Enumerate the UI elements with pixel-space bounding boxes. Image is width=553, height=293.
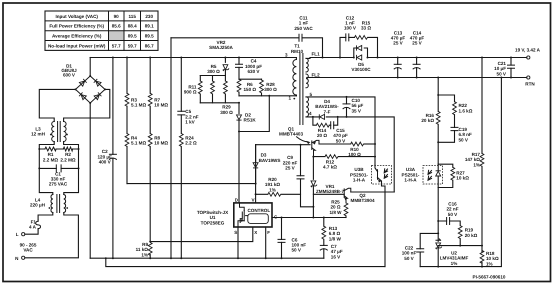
resistor R22 1.6k	[437, 94, 473, 115]
Q1 base wire	[256, 144, 310, 146]
svg-text:D: D	[235, 198, 238, 203]
svg-text:RM10: RM10	[291, 49, 304, 54]
capacitor C22 100nF	[402, 233, 438, 266]
svg-text:4: 4	[309, 111, 312, 116]
transistor Q2 MMBT3904	[313, 188, 394, 203]
resistor R28 300	[260, 79, 278, 96]
U2 ref wire	[438, 245, 482, 247]
svg-text:V30100C: V30100C	[351, 67, 371, 72]
zener VR1 ZMM5248B-7	[311, 157, 345, 219]
resistor R25 20 1/8W	[330, 199, 348, 217]
svg-text:600 V: 600 V	[63, 73, 76, 78]
snubber R15 33	[355, 21, 379, 59]
capacitor C21 10uF	[494, 57, 514, 79]
wire fuse to L4 left	[38, 213, 53, 221]
B+ rail	[90, 57, 296, 59]
fuse F1 4 A	[37, 220, 39, 230]
svg-text:50 V: 50 V	[336, 138, 346, 143]
svg-text:115: 115	[128, 14, 136, 19]
capacitor C10 56uF	[343, 96, 364, 118]
resistor R24 2.2	[179, 134, 197, 260]
svg-text:Average Efficiency (%): Average Efficiency (%)	[52, 34, 102, 39]
capacitor C13 470uF	[391, 30, 406, 78]
resistors R1 R2 2.2M	[38, 147, 79, 169]
svg-text:50 V: 50 V	[448, 212, 458, 217]
output rectifier D5 V30100C dual	[351, 45, 371, 72]
svg-text:630 V: 630 V	[247, 69, 260, 74]
svg-text:5: 5	[310, 92, 313, 97]
optocoupler U3A PS2501 LED side	[402, 164, 443, 187]
svg-text:300 Ω: 300 Ω	[220, 110, 233, 115]
wires L3 to bridge AC	[39, 89, 75, 121]
svg-text:900 Ω: 900 Ω	[184, 90, 197, 95]
svg-text:10 MΩ: 10 MΩ	[154, 141, 168, 146]
opto cathode down to U2	[437, 188, 439, 267]
svg-text:100 V: 100 V	[344, 26, 357, 31]
svg-text:4.7 kΩ: 4.7 kΩ	[323, 165, 337, 170]
svg-text:2.2 Ω: 2.2 Ω	[185, 141, 197, 146]
resistor R4 5.1M	[125, 134, 146, 184]
svg-text:TOP258EG: TOP258EG	[201, 220, 225, 225]
optocoupler U3B PS2501 transistor side	[350, 165, 391, 184]
svg-text:10 MΩ: 10 MΩ	[154, 103, 168, 108]
efficiency table	[45, 11, 158, 50]
resistor R17 147k	[465, 152, 484, 167]
capacitor C19 6.8nF	[437, 115, 472, 144]
svg-text:89.5: 89.5	[145, 34, 154, 39]
shunt regulator U2 LMV431AIMF	[436, 239, 469, 266]
svg-text:5.1 MΩ: 5.1 MΩ	[131, 141, 146, 146]
resistor R12 4.7k	[312, 155, 376, 170]
U3B emitter wire	[382, 184, 386, 267]
svg-text:57.7: 57.7	[112, 43, 121, 48]
svg-text:50 V: 50 V	[497, 71, 507, 76]
svg-text:10 kΩ: 10 kΩ	[456, 176, 469, 181]
capacitor C14 470uF	[410, 30, 425, 78]
capacitor C5 2.2nF	[178, 57, 199, 134]
capacitor C16 22nF	[438, 201, 460, 225]
T1 winding FL1	[306, 51, 320, 72]
svg-text:1: 1	[288, 95, 291, 100]
clamp top bar	[200, 75, 225, 77]
X pin wire	[150, 227, 253, 242]
svg-text:25 V: 25 V	[412, 40, 422, 45]
diode D3 BAV19WS	[253, 145, 280, 184]
svg-text:400 V: 400 V	[99, 160, 112, 165]
clamp bottom bar	[200, 102, 239, 104]
transistor Q1 MMBT4403	[279, 126, 351, 156]
svg-text:ZMM5248B-7: ZMM5248B-7	[316, 189, 345, 194]
svg-text:12 mH: 12 mH	[31, 131, 45, 136]
svg-text:Input Voltage (VAC): Input Voltage (VAC)	[55, 14, 98, 19]
svg-text:300 Ω: 300 Ω	[264, 87, 277, 92]
svg-text:RS1K: RS1K	[244, 118, 257, 123]
svg-text:88.4: 88.4	[128, 24, 137, 29]
svg-text:Full Power Efficiency (%): Full Power Efficiency (%)	[49, 24, 104, 29]
T1 bias winding pin5-pin4	[306, 92, 313, 117]
svg-text:SMAJ250A: SMAJ250A	[209, 45, 233, 50]
resistor R13 6.8	[322, 217, 342, 242]
svg-text:No-load Input Power (mW): No-load Input Power (mW)	[48, 43, 106, 48]
svg-text:X: X	[254, 230, 257, 235]
wire L to fuse	[25, 230, 38, 234]
svg-text:25 V: 25 V	[393, 40, 403, 45]
resistor R10 100	[348, 142, 376, 157]
resistor R29 300	[220, 76, 233, 115]
svg-text:20 kΩ: 20 kΩ	[465, 233, 478, 238]
snubber C15 470pF	[329, 116, 348, 143]
wire R4 to V-pin column	[127, 183, 256, 185]
wire bridge minus down	[89, 103, 91, 258]
svg-text:20 kΩ: 20 kΩ	[421, 118, 434, 123]
secondary ground rail	[420, 78, 501, 267]
svg-text:1%: 1%	[141, 252, 148, 257]
resistor R20 191k	[256, 177, 315, 208]
svg-text:4 A: 4 A	[29, 225, 37, 230]
svg-text:89.1: 89.1	[145, 24, 154, 29]
wire N to L4 right	[25, 213, 79, 258]
svg-text:90: 90	[114, 14, 120, 19]
snubber R14 20	[312, 116, 329, 138]
svg-text:50 V: 50 V	[404, 256, 414, 261]
svg-text:85.6: 85.6	[112, 24, 121, 29]
svg-text:L: L	[16, 232, 19, 237]
svg-text:3: 3	[285, 53, 288, 58]
TVS VR2 SMAJ250A	[209, 40, 233, 75]
Y capacitor C11 1nF	[171, 15, 324, 58]
resistor R18 10k	[480, 250, 499, 266]
resistor R8 10M	[148, 134, 168, 242]
svg-text:2.2 MΩ: 2.2 MΩ	[60, 157, 75, 162]
svg-text:275 VAC: 275 VAC	[49, 182, 68, 187]
resistor R11 900	[184, 76, 202, 103]
resistor R27 10k	[438, 164, 469, 187]
diode D2 RS1K	[236, 103, 256, 132]
inductor L3 12mH common-mode choke	[31, 122, 68, 142]
diode D4 BAV21WS-7-F	[315, 99, 339, 120]
svg-text:1-H-A: 1-H-A	[353, 178, 366, 183]
svg-text:1%: 1%	[451, 261, 458, 266]
resistor R16 20k	[421, 111, 440, 124]
bridge rectifier D1 GBU8J	[61, 64, 106, 105]
svg-text:1%: 1%	[269, 187, 276, 192]
svg-text:5.1 MΩ: 5.1 MΩ	[131, 103, 146, 108]
primary source rail	[90, 257, 324, 259]
svg-text:VAC: VAC	[23, 248, 33, 253]
resistor R3 5.1M	[125, 57, 146, 134]
svg-text:33 Ω: 33 Ω	[361, 26, 371, 31]
svg-text:1/8 W: 1/8 W	[330, 210, 343, 215]
svg-text:35 V: 35 V	[352, 108, 362, 113]
svg-text:7-F: 7-F	[324, 109, 331, 114]
resistor R19 20k	[458, 226, 477, 247]
svg-text:150 Ω: 150 Ω	[243, 87, 256, 92]
secondary output line	[310, 57, 527, 59]
output terminal 19V	[527, 56, 530, 59]
svg-text:300 Ω: 300 Ω	[207, 69, 220, 74]
return link rail	[106, 258, 385, 266]
terminal N	[22, 256, 25, 259]
inductor L4 220uH common-mode choke	[30, 195, 68, 213]
svg-text:RTN: RTN	[525, 82, 535, 87]
resistor R7 10M	[148, 57, 168, 134]
svg-text:1%: 1%	[486, 261, 493, 266]
capacitor C1 330nF X	[39, 165, 78, 187]
svg-text:1 kV: 1 kV	[185, 120, 195, 125]
T1 primary winding pin3-pin1	[285, 53, 296, 101]
V pin wire	[255, 145, 257, 203]
svg-text:1%: 1%	[473, 162, 480, 167]
bias line A pin5	[306, 97, 375, 165]
C pin wire	[272, 217, 346, 219]
svg-text:S: S	[234, 230, 237, 235]
svg-text:FL2: FL2	[312, 73, 321, 78]
capacitor C6 100nF	[278, 217, 306, 260]
capacitor C4 1000pF	[236, 57, 263, 80]
capacitor C7 47uF	[320, 239, 343, 259]
svg-text:MMBT3904: MMBT3904	[351, 198, 375, 203]
svg-text:1.6 kΩ: 1.6 kΩ	[459, 108, 473, 113]
TOPSwitch U1 TOP258EG	[197, 198, 278, 235]
svg-text:230: 230	[145, 14, 153, 19]
svg-text:50 V: 50 V	[459, 137, 469, 142]
svg-text:20 Ω: 20 Ω	[317, 133, 327, 138]
resistor R5 300	[207, 64, 220, 103]
terminal L	[22, 233, 25, 236]
svg-text:PI-5667-090610: PI-5667-090610	[473, 274, 506, 279]
svg-text:50 V: 50 V	[292, 248, 302, 253]
capacitor C9 220nF	[283, 144, 304, 195]
drain link wires	[239, 95, 296, 97]
svg-text:FL1: FL1	[312, 51, 321, 56]
Y-cap return wire	[170, 38, 172, 258]
svg-text:19 V, 3.42 A: 19 V, 3.42 A	[515, 48, 541, 53]
svg-text:1/8 W: 1/8 W	[329, 236, 342, 241]
RTN line	[310, 77, 527, 79]
wire L4 tops to C1 rails	[39, 168, 78, 194]
svg-text:25 V: 25 V	[285, 166, 295, 171]
output terminal RTN	[527, 76, 530, 79]
T1 winding FL2	[306, 73, 320, 88]
bias line B pin4	[306, 117, 394, 192]
wire bridge plus to rail	[89, 58, 91, 77]
svg-text:2.2 MΩ: 2.2 MΩ	[43, 157, 58, 162]
feedback column from RTN	[437, 78, 439, 165]
svg-text:BAV19WS: BAV19WS	[259, 158, 281, 163]
svg-text:250 VAC: 250 VAC	[294, 26, 313, 31]
svg-text:220 µH: 220 µH	[30, 202, 46, 207]
snubber C12 1nF	[339, 16, 357, 59]
resistor R6 150	[237, 79, 256, 96]
svg-text:MMBT4403: MMBT4403	[279, 132, 303, 137]
resistor R9 11k	[136, 242, 152, 259]
wires R1R2 rails up to L3	[39, 142, 78, 150]
S pin wire	[237, 227, 239, 258]
capacitor C2 120uF 400V bulk	[97, 57, 116, 260]
snubber top bar	[239, 78, 262, 80]
svg-text:89.5: 89.5	[128, 34, 137, 39]
svg-text:86.7: 86.7	[145, 43, 154, 48]
F pin wire	[265, 227, 267, 258]
divider column R17	[481, 58, 483, 267]
svg-text:CONTROL: CONTROL	[247, 208, 270, 213]
T1 core	[300, 54, 303, 125]
svg-text:59.7: 59.7	[128, 43, 137, 48]
svg-text:16 V: 16 V	[331, 254, 341, 259]
svg-text:1-H-A: 1-H-A	[404, 178, 417, 183]
svg-text:F: F	[267, 230, 270, 235]
